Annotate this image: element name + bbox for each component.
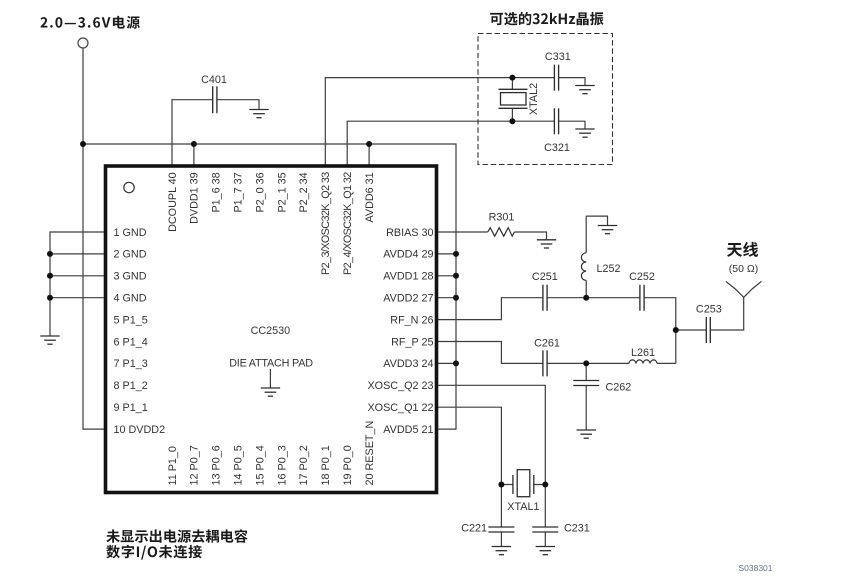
svg-text:5 P1_5: 5 P1_5 — [114, 314, 148, 326]
svg-text:P1_6 38: P1_6 38 — [211, 172, 223, 212]
svg-text:XOSC_Q2 23: XOSC_Q2 23 — [367, 380, 433, 392]
svg-text:DVDD1 39: DVDD1 39 — [189, 172, 201, 224]
svg-text:9 P1_1: 9 P1_1 — [114, 402, 148, 414]
svg-text:19 P0_0: 19 P0_0 — [342, 445, 354, 485]
svg-text:P1_7 37: P1_7 37 — [233, 172, 245, 212]
svg-text:L252: L252 — [597, 263, 621, 275]
svg-text:C251: C251 — [532, 271, 558, 283]
svg-text:DCOUPL 40: DCOUPL 40 — [167, 172, 179, 232]
svg-text:P2_2 34: P2_2 34 — [298, 172, 310, 212]
svg-text:L261: L261 — [631, 347, 655, 359]
svg-text:(50 Ω): (50 Ω) — [729, 263, 758, 275]
svg-text:XOSC_Q1 22: XOSC_Q1 22 — [367, 402, 433, 414]
svg-text:AVDD2 27: AVDD2 27 — [383, 293, 433, 305]
svg-text:14 P0_5: 14 P0_5 — [233, 445, 245, 485]
svg-text:RBIAS 30: RBIAS 30 — [386, 227, 433, 239]
svg-text:P2_4/XOSC32K_Q1 32: P2_4/XOSC32K_Q1 32 — [342, 172, 354, 275]
svg-text:11 P1_0: 11 P1_0 — [167, 446, 179, 485]
svg-text:7 P1_3: 7 P1_3 — [114, 358, 148, 370]
svg-text:18 P0_1: 18 P0_1 — [320, 445, 332, 485]
svg-text:C401: C401 — [201, 74, 227, 86]
svg-text:AVDD1 28: AVDD1 28 — [383, 271, 433, 283]
svg-text:16 P0_3: 16 P0_3 — [276, 445, 288, 485]
svg-text:C231: C231 — [564, 523, 590, 535]
svg-text:20 RESET_N: 20 RESET_N — [364, 421, 376, 486]
svg-text:3 GND: 3 GND — [114, 271, 147, 283]
svg-text:CC2530: CC2530 — [251, 325, 291, 337]
svg-text:13 P0_6: 13 P0_6 — [211, 445, 223, 485]
svg-text:XTAL1: XTAL1 — [507, 501, 539, 513]
svg-text:6 P1_4: 6 P1_4 — [114, 336, 148, 348]
svg-text:C252: C252 — [629, 271, 655, 283]
svg-text:AVDD5 21: AVDD5 21 — [383, 424, 433, 436]
svg-text:RF_P 25: RF_P 25 — [391, 336, 433, 348]
svg-text:C253: C253 — [696, 304, 722, 316]
svg-text:DIE ATTACH PAD: DIE ATTACH PAD — [229, 358, 313, 370]
svg-text:RF_N 26: RF_N 26 — [390, 314, 433, 326]
svg-text:10 DVDD2: 10 DVDD2 — [114, 424, 166, 436]
svg-text:P2_3/XOSC32K_Q2 33: P2_3/XOSC32K_Q2 33 — [320, 172, 332, 275]
svg-text:C321: C321 — [544, 142, 570, 154]
svg-text:C221: C221 — [461, 523, 487, 535]
svg-text:P2_0 36: P2_0 36 — [254, 172, 266, 212]
svg-text:C262: C262 — [606, 382, 632, 394]
svg-text:C331: C331 — [545, 51, 571, 63]
svg-text:8 P1_2: 8 P1_2 — [114, 380, 148, 392]
svg-text:AVDD4 29: AVDD4 29 — [383, 249, 433, 261]
svg-text:C261: C261 — [534, 338, 560, 350]
svg-text:2 GND: 2 GND — [114, 249, 147, 261]
svg-text:AVDD3 24: AVDD3 24 — [383, 358, 433, 370]
svg-text:AVDD6 31: AVDD6 31 — [364, 172, 376, 222]
svg-text:1 GND: 1 GND — [114, 227, 147, 239]
svg-text:4 GND: 4 GND — [114, 293, 147, 305]
svg-text:S038301: S038301 — [738, 563, 772, 573]
svg-text:R301: R301 — [489, 212, 515, 224]
svg-text:P2_1 35: P2_1 35 — [276, 172, 288, 212]
svg-text:15 P0_4: 15 P0_4 — [254, 445, 266, 485]
svg-text:XTAL2: XTAL2 — [528, 83, 540, 115]
svg-text:12 P0_7: 12 P0_7 — [189, 445, 201, 485]
svg-text:17 P0_2: 17 P0_2 — [298, 445, 310, 485]
